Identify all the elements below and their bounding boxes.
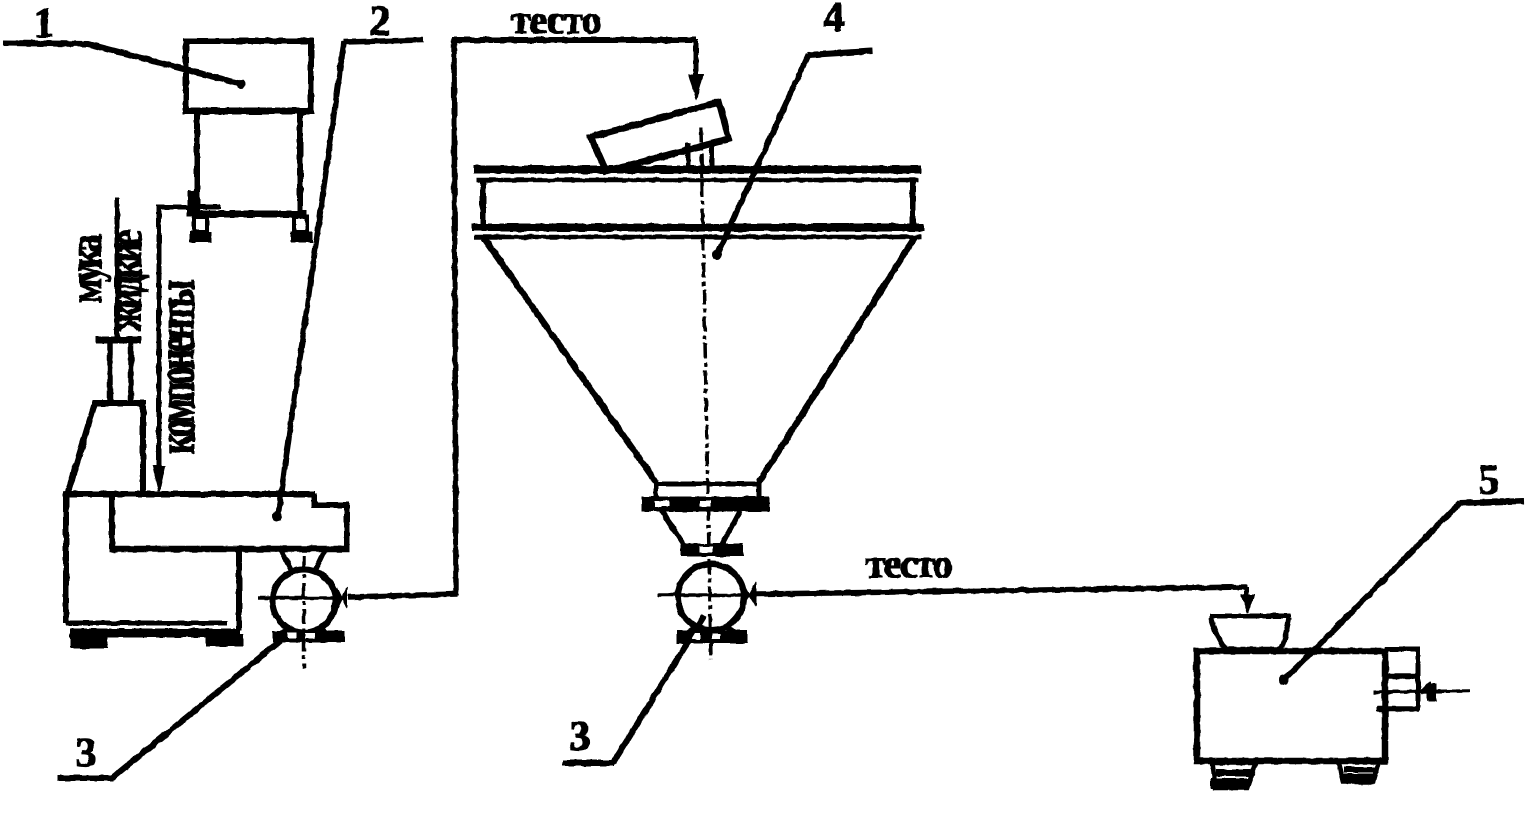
hopper cone right <box>759 237 915 482</box>
machine M5 left foot <box>1212 763 1256 788</box>
label 3b underline <box>563 761 614 766</box>
pump P1 circle <box>273 570 336 633</box>
label 3a leader <box>112 641 280 778</box>
hopper small cone right <box>722 511 740 545</box>
hopper rim bar1 bottom line <box>477 178 918 182</box>
machine M5 shaft line <box>1374 691 1469 692</box>
flour duct T-bar <box>96 337 141 343</box>
hopper tilted feed trough <box>591 102 729 171</box>
pump P1 base legs <box>279 627 290 636</box>
mixer pedestal left edge <box>64 494 69 622</box>
label 4 leader <box>717 55 808 255</box>
tank T1 left leg <box>195 112 200 213</box>
pump P2 base bar <box>677 631 747 643</box>
tank T1 right leg <box>298 112 303 213</box>
pipe dough 1 drop <box>694 40 698 78</box>
pipe dough 1 top horizontal <box>452 38 696 43</box>
hopper rim right connector <box>911 181 916 224</box>
pipe dough 2 arrow <box>1241 595 1254 613</box>
machine M5 right foot <box>1338 761 1379 782</box>
hopper centerline <box>701 128 711 660</box>
machine M5 nozzle <box>1429 684 1436 701</box>
pump P2 valve bowtie <box>742 582 749 606</box>
flour pipe vertical <box>115 198 119 338</box>
label 3b leader <box>613 616 704 763</box>
hopper cone left <box>484 238 656 482</box>
hopper rim bar2 bottom line <box>475 235 921 239</box>
label 4 leader dot <box>713 251 721 259</box>
mixer trough bottom edge <box>110 546 349 552</box>
svg-text:4: 4 <box>824 0 845 41</box>
mixer trough step <box>314 494 347 549</box>
machine M5 box <box>1197 651 1385 761</box>
machine M5 funnel right side <box>1281 618 1289 648</box>
pump P1 centerline vertical <box>303 556 306 668</box>
svg-text:3: 3 <box>76 731 97 777</box>
label 5 leader <box>1284 503 1460 680</box>
hopper spout left <box>686 144 690 168</box>
label 1 leader polyline <box>4 43 241 84</box>
label 4 underline <box>808 51 872 55</box>
machine M5 attachment divider <box>1386 674 1419 679</box>
mixer trough top edge <box>64 492 314 497</box>
hopper flange 1 <box>642 497 769 511</box>
label 5 leader dot <box>1280 676 1289 685</box>
pump P2 crosshair horizontal <box>658 594 745 597</box>
mixer left foot <box>71 637 107 648</box>
liquid pipe vertical <box>157 207 161 470</box>
pipe dough 2 horizontal <box>757 587 1247 594</box>
pump P1 support right <box>315 550 325 571</box>
machine M5 attachment right edge <box>1416 648 1420 710</box>
svg-text:2: 2 <box>370 0 391 45</box>
hopper rim bar1 top <box>474 166 921 173</box>
mixer right foot <box>206 635 243 646</box>
mixer trough inner wall <box>110 494 115 549</box>
pump P1 base bar <box>273 631 344 642</box>
machine M5 funnel bottom edge <box>1222 647 1283 651</box>
mixer pedestal right edge <box>237 549 242 630</box>
tank T1 box thick bottom <box>183 108 313 114</box>
liquid pipe valve tick <box>188 191 196 216</box>
hopper flange 2 <box>681 544 743 556</box>
label 2 underline <box>344 40 423 42</box>
pump P1 crosshair horizontal <box>259 597 347 600</box>
pipe dough 1 horizontal from pump <box>349 594 457 597</box>
label 2 leader dot <box>273 512 282 521</box>
label 1 leader dot <box>237 80 245 88</box>
liquid pipe horizontal <box>157 205 220 209</box>
hopper neck left <box>654 482 658 498</box>
tank T1 box <box>186 41 311 111</box>
svg-text:компоненты: компоненты <box>146 280 206 454</box>
pipe dough 1 riser <box>454 39 456 595</box>
tank T1 right foot <box>294 217 307 232</box>
hopper small cone left <box>662 511 684 545</box>
label 5 underline <box>1460 501 1524 503</box>
machine M5 funnel left side <box>1211 618 1225 648</box>
flour duct left wall <box>108 343 113 401</box>
tank T1 left foot <box>194 217 207 232</box>
svg-text:3: 3 <box>570 714 591 760</box>
pump P2 base legs <box>686 626 697 634</box>
hopper neck right <box>757 482 761 498</box>
mixer base thick bar <box>70 629 240 637</box>
hopper rim left connector <box>481 182 486 224</box>
svg-text:жидкие: жидкие <box>101 230 153 331</box>
svg-text:тесто: тесто <box>511 0 601 42</box>
machine M5 attachment top edge <box>1385 647 1420 651</box>
svg-text:1: 1 <box>34 1 55 47</box>
machine M5 attachment bottom <box>1377 707 1419 712</box>
pipe dough 1 arrow <box>689 75 703 100</box>
svg-text:тесто: тесто <box>866 541 952 586</box>
machine M5 funnel top edge <box>1210 614 1290 618</box>
liquid pipe arrow <box>153 466 165 492</box>
label 2 leader <box>278 42 344 516</box>
hopper neck top line <box>654 482 761 486</box>
hopper rim bar2 top <box>472 224 924 231</box>
pump P1 support left <box>281 550 292 571</box>
label 3a underline <box>58 776 113 781</box>
hopper spout right <box>710 141 714 168</box>
flour duct right wall <box>129 343 134 401</box>
pipe dough 2 drop <box>1245 587 1249 598</box>
pump P2 circle <box>678 564 744 630</box>
tank T1 shelf <box>192 211 306 217</box>
mixer hood <box>68 403 143 492</box>
mixer pedestal bottom line <box>66 621 227 625</box>
pump P1 valve bowtie <box>337 588 342 608</box>
svg-text:5: 5 <box>1479 458 1500 504</box>
